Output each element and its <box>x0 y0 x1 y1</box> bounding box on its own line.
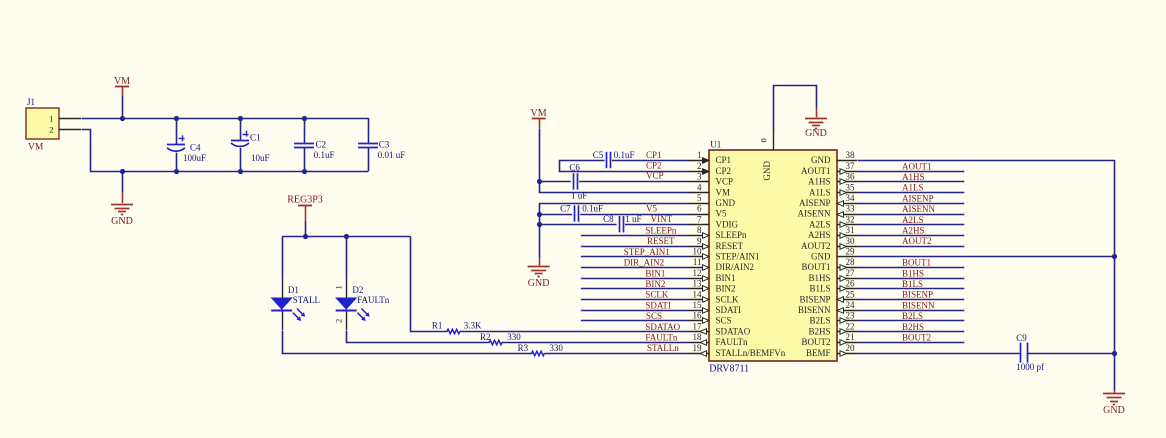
wire AISENP from pin 34 <box>857 203 964 205</box>
pin 31 A2HS <box>837 235 857 237</box>
wire CP1 line right part <box>612 160 689 162</box>
svg-text:3: 3 <box>697 172 702 182</box>
svg-text:B1LS: B1LS <box>809 284 830 294</box>
svg-text:RESET: RESET <box>647 236 675 246</box>
junction rail at D2 <box>344 234 349 239</box>
svg-text:A1HS: A1HS <box>902 172 925 182</box>
svg-text:22: 22 <box>846 321 855 331</box>
junction right bus pin29 <box>1112 254 1117 259</box>
svg-text:GND: GND <box>811 155 831 165</box>
svg-text:37: 37 <box>846 161 856 171</box>
pin 26 B1LS <box>837 288 857 290</box>
svg-text:CP2: CP2 <box>646 161 662 171</box>
svg-text:BISENP: BISENP <box>799 294 830 304</box>
ground GND middle <box>539 257 541 265</box>
svg-text:2: 2 <box>334 319 344 323</box>
wire SCS to pin 16 <box>581 320 689 322</box>
svg-text:BIN2: BIN2 <box>716 284 736 294</box>
svg-text:30: 30 <box>846 236 856 246</box>
svg-text:11: 11 <box>693 257 702 267</box>
pin 33 AISENN <box>837 214 857 216</box>
pin 34 AISENP <box>837 203 857 205</box>
capacitor C1 (10uF polarized) <box>240 118 242 140</box>
wire STEP_AIN1 to pin 10 <box>581 256 689 258</box>
power VM top-left <box>115 86 129 88</box>
svg-text:B1LS: B1LS <box>902 279 923 289</box>
pin 10 STEP/AIN1 <box>689 256 709 258</box>
pin 16 SCS <box>689 320 709 322</box>
pin 37 AOUT1 <box>837 171 857 173</box>
wire pin38 GND to right bus <box>858 161 1115 391</box>
svg-text:CP1: CP1 <box>716 155 732 165</box>
pin 35 A1LS <box>837 192 857 194</box>
svg-text:C2: C2 <box>316 140 327 150</box>
junction top rail at C4 <box>174 116 179 121</box>
capacitor C5 (0.1uF) between CP1/CP2 <box>606 152 608 168</box>
svg-text:1000 pf: 1000 pf <box>1016 362 1044 372</box>
junction top rail at VM <box>120 116 125 121</box>
svg-text:BIN1: BIN1 <box>645 268 665 278</box>
junction GND bus / C7 <box>537 212 542 217</box>
svg-text:330: 330 <box>549 343 563 353</box>
pin 30 AOUT2 <box>837 246 857 248</box>
svg-text:AISENN: AISENN <box>798 209 831 219</box>
svg-text:BIN1: BIN1 <box>716 273 736 283</box>
svg-text:B2HS: B2HS <box>808 326 830 336</box>
svg-text:28: 28 <box>846 257 856 267</box>
svg-text:B1HS: B1HS <box>808 273 830 283</box>
svg-text:4: 4 <box>697 182 702 192</box>
connector J1 <box>26 108 59 139</box>
svg-text:2: 2 <box>49 125 53 135</box>
pin 15 SDATI <box>689 310 709 312</box>
svg-text:33: 33 <box>846 204 856 214</box>
svg-text:SDATAO: SDATAO <box>645 322 680 332</box>
svg-text:0.1uF: 0.1uF <box>314 150 335 160</box>
junction right bus BEMF <box>1112 351 1117 356</box>
junction bottom rail at C4 <box>174 169 179 174</box>
junction rail at REG3P3 <box>303 234 308 239</box>
svg-text:BISENP: BISENP <box>902 290 933 300</box>
svg-text:AOUT2: AOUT2 <box>801 241 831 251</box>
wire D2 cathode to FAULTn line <box>347 331 490 343</box>
pin 32 A2LS <box>837 224 857 226</box>
svg-text:19: 19 <box>693 343 703 353</box>
wire pin0 to top GND <box>774 86 817 131</box>
svg-text:V5: V5 <box>646 203 657 213</box>
svg-text:C7: C7 <box>560 203 571 213</box>
svg-text:0.1uF: 0.1uF <box>614 150 635 160</box>
svg-text:STALLn/BEMFVn: STALLn/BEMFVn <box>716 348 786 358</box>
svg-text:D1: D1 <box>288 285 299 295</box>
pin 24 BISENN <box>837 310 857 312</box>
wire GND pin5 line and bus down <box>540 204 690 258</box>
pin 12 BIN1 <box>689 278 709 280</box>
wire V5 line left part <box>539 214 572 216</box>
wire D2 anode <box>346 236 348 278</box>
junction top rail at C1 <box>238 116 243 121</box>
wire VINT line right part <box>625 224 689 226</box>
svg-text:A1LS: A1LS <box>902 183 924 193</box>
wire A1LS from pin 35 <box>857 192 964 194</box>
svg-text:VM: VM <box>531 108 547 119</box>
svg-text:23: 23 <box>846 311 856 321</box>
svg-text:1: 1 <box>697 150 702 160</box>
svg-text:3.3K: 3.3K <box>464 321 482 331</box>
svg-text:0: 0 <box>759 138 769 142</box>
svg-text:31: 31 <box>846 225 855 235</box>
svg-text:DIR_AIN2: DIR_AIN2 <box>624 258 665 268</box>
ground GND left <box>122 171 124 192</box>
svg-text:VINT: VINT <box>651 214 673 224</box>
svg-text:GND: GND <box>762 161 772 181</box>
wire REG3P3 to rail <box>305 221 307 236</box>
pin 4 VM <box>689 192 709 194</box>
svg-text:C4: C4 <box>190 143 201 153</box>
svg-text:36: 36 <box>846 172 856 182</box>
wire BIN1 to pin 12 <box>581 278 689 280</box>
svg-text:A2HS: A2HS <box>808 230 831 240</box>
wire VCP line right part <box>579 181 689 183</box>
svg-text:B2LS: B2LS <box>902 311 923 321</box>
power REG3P3 <box>298 205 312 207</box>
svg-text:A1LS: A1LS <box>809 187 831 197</box>
svg-text:A2LS: A2LS <box>902 215 924 225</box>
wire BIN2 to pin 13 <box>581 288 689 290</box>
power VM middle <box>532 118 546 120</box>
svg-text:AISENP: AISENP <box>902 193 934 203</box>
svg-text:B2HS: B2HS <box>902 322 924 332</box>
svg-text:C5: C5 <box>593 150 604 160</box>
wire SCLK to pin 14 <box>581 299 689 301</box>
pin 0 GND top <box>773 130 775 151</box>
svg-text:R1: R1 <box>432 321 443 331</box>
wire B2LS from pin 23 <box>857 320 964 322</box>
pin 11 DIR/AIN2 <box>689 267 709 269</box>
svg-text:A2LS: A2LS <box>809 219 831 229</box>
pin 28 BOUT1 <box>837 267 857 269</box>
svg-text:DIR/AIN2: DIR/AIN2 <box>716 262 755 272</box>
wire REG3P3 rail to R1 <box>411 237 448 332</box>
svg-text:100uF: 100uF <box>183 153 206 163</box>
wire B2HS from pin 22 <box>857 331 964 333</box>
svg-text:FAULTn: FAULTn <box>645 333 678 343</box>
pin 29 GND <box>837 256 857 258</box>
wire B1HS from pin 27 <box>857 278 964 280</box>
svg-text:2: 2 <box>697 161 702 171</box>
junction bottom rail at C1 <box>238 169 243 174</box>
wire V5 line right part <box>580 214 689 216</box>
svg-text:BOUT2: BOUT2 <box>902 333 931 343</box>
wire R1 to pin17 SDATAO <box>460 331 689 333</box>
wire C9 to right bus <box>1027 353 1114 355</box>
wire VCP line left part <box>539 181 571 183</box>
wire B1LS from pin 26 <box>857 288 964 290</box>
svg-text:12: 12 <box>693 268 702 278</box>
svg-text:10uF: 10uF <box>251 153 270 163</box>
capacitor C4 (100uF polarized) <box>176 118 178 144</box>
svg-text:24: 24 <box>846 300 856 310</box>
junction VM/VCP <box>537 179 542 184</box>
pin 5 GND <box>689 203 709 205</box>
pin 9 RESET <box>689 246 709 248</box>
LED D1 emission arrows <box>297 309 303 315</box>
pin 20 BEMF <box>837 353 857 355</box>
svg-text:SCS: SCS <box>646 311 662 321</box>
pin 38 GND <box>837 160 857 162</box>
svg-text:34: 34 <box>846 193 856 203</box>
svg-text:10: 10 <box>693 247 703 257</box>
svg-text:16: 16 <box>693 311 703 321</box>
svg-text:VM: VM <box>28 143 44 153</box>
svg-text:AOUT2: AOUT2 <box>902 236 932 246</box>
svg-text:0.01 uF: 0.01 uF <box>378 150 406 160</box>
wire RESET to pin 9 <box>581 246 689 248</box>
pin 19 STALLn/BEMFVn <box>689 353 709 355</box>
svg-text:SCS: SCS <box>716 316 732 326</box>
svg-text:STEP/AIN1: STEP/AIN1 <box>716 252 760 262</box>
pin 13 BIN2 <box>689 288 709 290</box>
svg-text:AISENN: AISENN <box>902 204 935 214</box>
pin 17 SDATAO <box>689 331 709 333</box>
capacitor C9 (1000 pf) <box>1020 343 1022 363</box>
wire AOUT2 from pin 30 <box>857 246 964 248</box>
pin 2 CP2 <box>689 171 709 173</box>
wire AISENN from pin 33 <box>857 214 964 216</box>
svg-text:6: 6 <box>697 204 702 214</box>
svg-text:32: 32 <box>846 214 855 224</box>
svg-text:GND: GND <box>1103 405 1125 416</box>
resistor R3 330 <box>532 351 545 355</box>
LED D2 emission arrows <box>361 309 367 315</box>
pin 8 SLEEPn <box>689 235 709 237</box>
wire D1 cathode to STALLn line <box>283 331 533 354</box>
LED D1 body <box>272 298 292 309</box>
svg-text:C3: C3 <box>379 140 390 150</box>
wire bottom rail from J1 pin2 <box>82 130 369 172</box>
wire LED supply rail <box>283 236 411 238</box>
svg-text:9: 9 <box>697 236 702 246</box>
svg-text:14: 14 <box>693 289 703 299</box>
svg-text:29: 29 <box>846 247 856 257</box>
svg-text:SDATI: SDATI <box>716 305 742 315</box>
svg-text:38: 38 <box>846 150 856 160</box>
junction top rail at C2 <box>302 116 307 121</box>
IC U1 DRV8711 body <box>709 150 837 361</box>
svg-text:U1: U1 <box>710 140 721 150</box>
svg-text:AOUT1: AOUT1 <box>902 161 932 171</box>
svg-text:C9: C9 <box>1016 333 1027 343</box>
wire A1HS from pin 36 <box>857 181 964 183</box>
ground GND right <box>1114 390 1116 393</box>
pin 6 V5 <box>689 214 709 216</box>
J1 pin 1 stub <box>59 118 81 120</box>
capacitor C6 (1 uF) on VCP <box>573 173 575 189</box>
pin 21 BOUT2 <box>837 342 857 344</box>
wire BOUT1 from pin 28 <box>857 267 964 269</box>
svg-text:BISENN: BISENN <box>902 300 935 310</box>
svg-text:R3: R3 <box>518 343 529 353</box>
svg-text:SCLK: SCLK <box>645 290 669 300</box>
svg-text:R2: R2 <box>480 332 491 342</box>
pin 3 VCP <box>689 181 709 183</box>
svg-text:330: 330 <box>507 332 521 342</box>
svg-text:D2: D2 <box>352 285 363 295</box>
svg-text:J1: J1 <box>27 97 35 107</box>
svg-text:26: 26 <box>846 279 856 289</box>
pin 22 B2HS <box>837 331 857 333</box>
svg-text:V5: V5 <box>716 209 727 219</box>
svg-text:13: 13 <box>693 279 703 289</box>
LED D2 pin wires <box>346 278 348 298</box>
wire VINT line left part <box>539 224 617 226</box>
wire DIR_AIN2 to pin 11 <box>581 267 689 269</box>
svg-text:FAULTn: FAULTn <box>716 337 749 347</box>
svg-text:GND: GND <box>111 216 133 227</box>
svg-text:A1HS: A1HS <box>808 177 831 187</box>
svg-text:BEMF: BEMF <box>806 348 831 358</box>
ground GND top <box>816 107 818 117</box>
resistor R1 3.3K <box>447 329 460 333</box>
svg-text:VM: VM <box>716 187 731 197</box>
svg-text:B1HS: B1HS <box>902 268 924 278</box>
wire top rail <box>82 118 369 120</box>
svg-text:1: 1 <box>334 285 344 289</box>
pin 1 CP1 <box>689 160 709 162</box>
capacitor C8 (1 uF) on VINT <box>619 216 621 232</box>
wire D1 anode <box>282 236 284 278</box>
svg-text:VCP: VCP <box>716 177 734 187</box>
svg-text:BIN2: BIN2 <box>645 279 665 289</box>
pin 23 B2LS <box>837 320 857 322</box>
resistor R2 330 <box>489 340 502 344</box>
J1 pin 2 stub <box>59 129 81 131</box>
svg-text:0.1uF: 0.1uF <box>582 203 603 213</box>
svg-text:STALL: STALL <box>293 295 320 305</box>
wire A2HS from pin 31 <box>857 235 964 237</box>
svg-text:25: 25 <box>846 289 856 299</box>
svg-text:C1: C1 <box>250 133 261 143</box>
svg-text:1 uF: 1 uF <box>625 214 641 224</box>
svg-text:REG3P3: REG3P3 <box>287 195 323 206</box>
pin 14 SCLK <box>689 299 709 301</box>
svg-text:35: 35 <box>846 182 856 192</box>
wire BOUT2 from pin 21 <box>857 342 964 344</box>
svg-text:BOUT1: BOUT1 <box>802 262 831 272</box>
svg-text:CP1: CP1 <box>646 150 662 160</box>
svg-text:GND: GND <box>716 198 736 208</box>
svg-text:SDATAO: SDATAO <box>716 326 751 336</box>
svg-text:BOUT1: BOUT1 <box>902 258 931 268</box>
wire SLEEPn to pin 8 <box>581 235 689 237</box>
wire BISENN from pin 24 <box>857 310 964 312</box>
wire SDATI to pin 15 <box>581 310 689 312</box>
svg-text:AISENP: AISENP <box>799 198 831 208</box>
pin 7 VDIG <box>689 224 709 226</box>
svg-text:B2LS: B2LS <box>809 316 830 326</box>
svg-text:A2HS: A2HS <box>902 226 925 236</box>
svg-text:STEP_AIN1: STEP_AIN1 <box>624 247 670 257</box>
svg-text:GND: GND <box>528 278 550 289</box>
svg-text:5: 5 <box>697 193 702 203</box>
pin 36 A1HS <box>837 181 857 183</box>
LED D1 pin wires <box>282 278 284 298</box>
svg-text:21: 21 <box>846 332 855 342</box>
svg-text:STALLn: STALLn <box>647 343 679 353</box>
svg-text:DRV8711: DRV8711 <box>709 364 749 375</box>
junction bottom rail at GND <box>120 169 125 174</box>
wire R2 to pin18 FAULTn <box>502 342 689 344</box>
capacitor C7 (0.1uF) on V5 <box>574 205 576 221</box>
wire pin29 GND to right bus <box>857 256 1114 258</box>
wire VM to top rail <box>122 95 124 118</box>
wire BEMF pin20 to C9 <box>857 353 1021 355</box>
svg-text:20: 20 <box>846 343 856 353</box>
svg-text:VDIG: VDIG <box>716 219 739 229</box>
svg-text:8: 8 <box>697 225 702 235</box>
wire R3 to pin19 STALLn <box>544 353 689 355</box>
svg-text:27: 27 <box>846 268 856 278</box>
svg-text:VM: VM <box>114 76 130 87</box>
capacitor C2 (0.1uF) <box>304 118 306 143</box>
svg-text:BISENN: BISENN <box>798 305 831 315</box>
wire VM down to VCP junction and pin4 <box>540 129 690 193</box>
svg-text:18: 18 <box>693 332 703 342</box>
svg-text:17: 17 <box>693 321 703 331</box>
wire AOUT1 from pin 37 <box>857 171 964 173</box>
svg-text:AOUT1: AOUT1 <box>801 166 831 176</box>
svg-text:CP2: CP2 <box>716 166 732 176</box>
svg-text:BOUT2: BOUT2 <box>802 337 831 347</box>
wire BISENP from pin 25 <box>857 299 964 301</box>
svg-text:SLEEPn: SLEEPn <box>645 226 677 236</box>
svg-text:GND: GND <box>811 252 831 262</box>
svg-text:15: 15 <box>693 300 703 310</box>
svg-text:7: 7 <box>697 214 702 224</box>
wire CP2 loop <box>560 161 690 172</box>
svg-text:SDATI: SDATI <box>645 300 671 310</box>
svg-text:FAULTn: FAULTn <box>357 295 390 305</box>
junction GND bus / C8 <box>537 222 542 227</box>
svg-text:1: 1 <box>49 114 53 124</box>
svg-text:SCLK: SCLK <box>716 294 740 304</box>
svg-text:GND: GND <box>805 128 827 139</box>
capacitor C3 (0.01 uF) <box>368 118 370 143</box>
svg-text:1 uF: 1 uF <box>571 191 587 201</box>
junction bottom rail at C2 <box>302 169 307 174</box>
svg-text:RESET: RESET <box>716 241 744 251</box>
wire A2LS from pin 32 <box>857 224 964 226</box>
LED D2 body <box>336 298 356 309</box>
pin 27 B1HS <box>837 278 857 280</box>
pin 25 BISENP <box>837 299 857 301</box>
svg-text:SLEEPn: SLEEPn <box>716 230 748 240</box>
pin 18 FAULTn <box>689 342 709 344</box>
svg-text:C8: C8 <box>603 214 614 224</box>
